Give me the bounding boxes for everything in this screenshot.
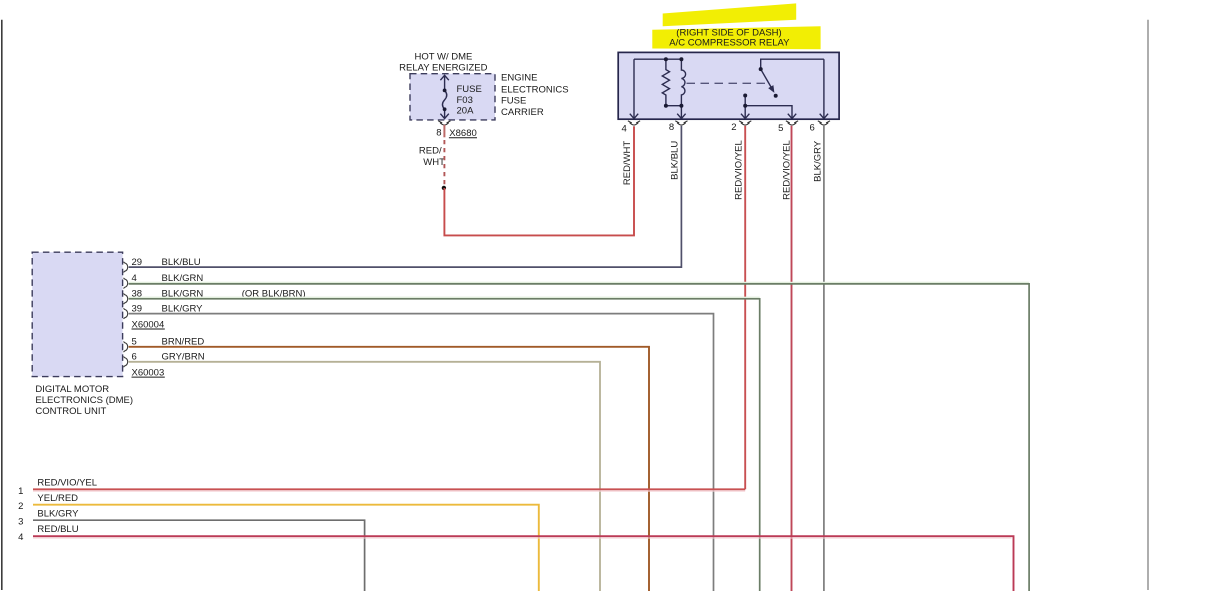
- relay pin numbers: [622, 122, 815, 134]
- relay pin 8 connector: [675, 121, 687, 125]
- svg-text:29: 29: [132, 257, 143, 268]
- svg-text:RED/WHT: RED/WHT: [622, 141, 633, 186]
- svg-text:3: 3: [18, 517, 23, 528]
- wire BLK/GRY DME pin39: [129, 314, 714, 591]
- svg-text:RED/VIO/YEL: RED/VIO/YEL: [733, 140, 744, 200]
- svg-text:HOT W/ DME: HOT W/ DME: [414, 52, 472, 63]
- relay coil-switch dashed link: [687, 82, 766, 84]
- svg-text:FUSE: FUSE: [457, 84, 482, 95]
- wire RED/VIO/YEL relay pin5 down: [791, 126, 793, 591]
- wire RED/WHT label: [419, 145, 445, 168]
- fuse F03 symbol: [440, 75, 448, 118]
- DME pin 39 connector: [124, 308, 128, 319]
- wire BRN/RED DME pin5: [129, 347, 649, 591]
- svg-text:F03: F03: [457, 95, 473, 106]
- relay pin 2 connector: [739, 121, 751, 125]
- svg-text:20A: 20A: [457, 105, 475, 116]
- wire RED/VIO/YEL relay pin2 down: [744, 126, 746, 490]
- wire GRY/BRN DME pin6: [129, 362, 600, 591]
- svg-text:BLK/BLU: BLK/BLU: [162, 257, 201, 268]
- svg-text:ELECTRONICS: ELECTRONICS: [501, 84, 569, 95]
- svg-text:ELECTRONICS (DME): ELECTRONICS (DME): [35, 395, 133, 406]
- svg-text:CARRIER: CARRIER: [501, 107, 544, 118]
- svg-text:RED/: RED/: [419, 145, 442, 156]
- relay pin 5 connector: [786, 121, 798, 125]
- svg-text:2: 2: [18, 501, 23, 512]
- fuse value label FUSE F03 20A: [457, 84, 482, 116]
- relay pin 4 connector: [628, 121, 640, 125]
- DME pin numbers and wire labels: [132, 257, 306, 379]
- svg-text:5: 5: [778, 123, 783, 134]
- svg-text:4: 4: [622, 123, 627, 134]
- svg-text:BLK/BLU: BLK/BLU: [670, 141, 681, 180]
- relay pin6 internal line: [820, 59, 828, 118]
- junction splice dot: [442, 186, 446, 190]
- wire RED/WHT dashed segment: [443, 140, 445, 188]
- svg-text:DIGITAL MOTOR: DIGITAL MOTOR: [35, 384, 109, 395]
- svg-text:8: 8: [669, 122, 674, 133]
- svg-text:4: 4: [18, 532, 23, 543]
- wire RED/WHT to relay pin 4: [444, 126, 634, 235]
- DME control unit box: [32, 252, 122, 376]
- relay pin4 internal line: [630, 59, 682, 118]
- wire 4 RED/BLU: [33, 536, 1014, 591]
- bottom wire numbers 1-4: [18, 486, 23, 543]
- wire 1 RED/VIO/YEL to relay pin2: [33, 489, 745, 491]
- svg-text:2: 2: [731, 122, 736, 133]
- svg-text:RELAY ENERGIZED: RELAY ENERGIZED: [399, 62, 487, 73]
- wire BLK/GRN DME pin38: [129, 297, 760, 591]
- svg-text:6: 6: [810, 122, 815, 133]
- wire BLK/BLU relay pin8 to DME pin29: [129, 126, 682, 267]
- relay coil resistor branch: [662, 59, 681, 105]
- DME caption: [35, 384, 133, 417]
- DME pin 38 connector: [124, 294, 128, 305]
- fuse carrier label: [501, 73, 569, 118]
- wire RED/WHT stub at connector: [443, 125, 445, 138]
- svg-text:RED/BLU: RED/BLU: [37, 524, 78, 535]
- wire BLK/GRY relay pin6 down: [823, 126, 825, 591]
- svg-text:RED/VIO/YEL: RED/VIO/YEL: [37, 478, 97, 489]
- svg-text:1: 1: [18, 486, 23, 497]
- svg-text:A/C COMPRESSOR RELAY: A/C COMPRESSOR RELAY: [669, 38, 790, 49]
- bottom wire labels: [37, 478, 97, 535]
- svg-text:YEL/RED: YEL/RED: [37, 493, 78, 504]
- wire BLK/GRN DME pin4: [129, 283, 1030, 592]
- svg-text:8: 8: [436, 128, 441, 139]
- relay switch: [761, 59, 824, 87]
- svg-text:FUSE: FUSE: [501, 96, 526, 107]
- connector X8680 symbol: [438, 121, 450, 125]
- relay box: [618, 52, 839, 119]
- DME pin 4 connector: [124, 278, 128, 289]
- fuse F03 box: [410, 74, 495, 120]
- DME pin 5 connector: [124, 342, 128, 353]
- svg-text:WHT: WHT: [423, 157, 445, 168]
- svg-text:CONTROL UNIT: CONTROL UNIT: [35, 406, 106, 417]
- relay pin 6 connector: [818, 121, 830, 125]
- svg-text:BLK/GRY: BLK/GRY: [37, 508, 79, 519]
- wire 3 BLK/GRY: [33, 520, 365, 591]
- DME pin 29 connector: [124, 262, 128, 273]
- highlight marker A/C compressor relay: [652, 3, 820, 49]
- power source label HOT W/ DME RELAY ENERGIZED: [399, 52, 487, 74]
- svg-text:ENGINE: ENGINE: [501, 73, 537, 84]
- connector X8680 label: [436, 128, 477, 139]
- relay pin2 pin5 internal lines: [741, 96, 796, 119]
- relay coil: [677, 59, 685, 118]
- relay location label: [669, 27, 790, 48]
- svg-text:BLK/GRY: BLK/GRY: [812, 140, 823, 182]
- DME pin 6 connector: [124, 357, 128, 368]
- wire 2 YEL/RED: [33, 505, 539, 591]
